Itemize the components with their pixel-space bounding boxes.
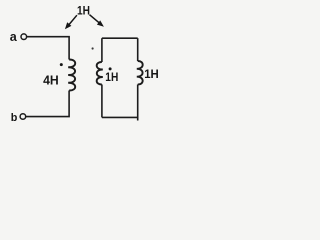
node b [11,112,18,124]
wire left side of loop below L2 [101,85,103,118]
svg-text:4H: 4H [43,73,59,88]
svg-text:1H: 1H [77,3,90,17]
wire top side of secondary loop [102,37,138,39]
inductor L2 1H coil (left of loop) [97,62,103,85]
terminal a [21,34,27,40]
wire inductor L1 bottom to b [26,91,69,117]
wire bottom side of secondary loop [102,116,138,118]
mutual coupling arrow to L1 [65,15,77,29]
terminal b [20,114,26,120]
inductor L3 1H coil (right of loop) [137,61,143,85]
mutual coupling arrow to L2 [90,15,104,27]
wire right side of loop below L3 (overshoots corner) [137,85,139,121]
svg-text:1H: 1H [144,67,159,81]
wire a to inductor L1 top [27,37,69,60]
value label 1H (L3) [144,67,159,81]
mutual inductance label 1H [77,3,90,17]
stray mark (scan speck) [92,47,94,49]
inductor L1 4H coil [68,59,75,90]
value label 1H (L2) [105,71,118,84]
value label 4H [43,73,59,88]
svg-text:1H: 1H [105,71,118,84]
svg-text:a: a [10,30,18,44]
node a [10,30,18,44]
wire right side of loop above L3 [137,38,139,61]
dot marking L1 polarity [60,63,63,66]
svg-text:b: b [11,112,18,124]
dot marking L2 polarity [109,67,112,70]
wire left side of loop above L2 [101,38,103,62]
